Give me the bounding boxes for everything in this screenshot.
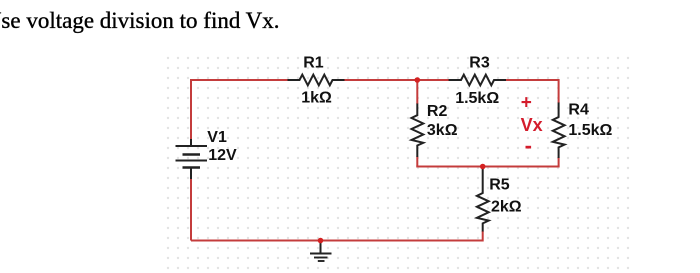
wire top middle: R1 to R3 through node A [344,79,449,81]
node A (R1/R2/R3 junction) [415,77,421,83]
resistor R4 [553,103,565,159]
wire R2 branch lower [416,157,418,167]
svg-text:V1: V1 [207,129,227,146]
svg-text:Use voltage division to find V: Use voltage division to find Vx. [0,8,280,33]
wire R4 branch lower [558,158,560,167]
svg-text:+: + [521,92,532,113]
svg-text:R3: R3 [469,55,490,72]
wire R5 branch lower [482,231,484,242]
node B (R2/R5/R4 junction) [480,164,486,170]
svg-text:R4: R4 [568,102,589,119]
svg-text:1.5kΩ: 1.5kΩ [455,90,499,107]
svg-text:R5: R5 [489,177,510,194]
resistor R2 [412,104,424,158]
svg-text:3kΩ: 3kΩ [427,122,458,139]
svg-text:1.5kΩ: 1.5kΩ [568,122,612,139]
battery V1 [176,139,208,179]
Vx minus sign [526,146,532,149]
ground [310,241,332,262]
wire top right: R3 to R4 corner [505,79,559,81]
wire top left: V1 top to R1 [191,80,288,140]
node ground junction [318,238,324,244]
svg-text:12V: 12V [208,147,237,164]
wire R2 branch upper [416,80,418,104]
svg-text:2kΩ: 2kΩ [491,199,522,216]
resistor R5 [477,168,489,232]
wire R4 branch upper [558,79,560,103]
svg-text:R2: R2 [427,103,448,120]
wire middle bottom rail [416,166,559,168]
svg-text:1kΩ: 1kΩ [301,90,332,107]
resistor R3 [449,75,506,86]
wire bottom rail [191,240,483,242]
svg-text:R1: R1 [303,55,324,72]
wire left: battery bottom to bottom rail [190,179,192,241]
svg-text:Vx: Vx [521,115,543,135]
resistor R1 [288,75,345,86]
